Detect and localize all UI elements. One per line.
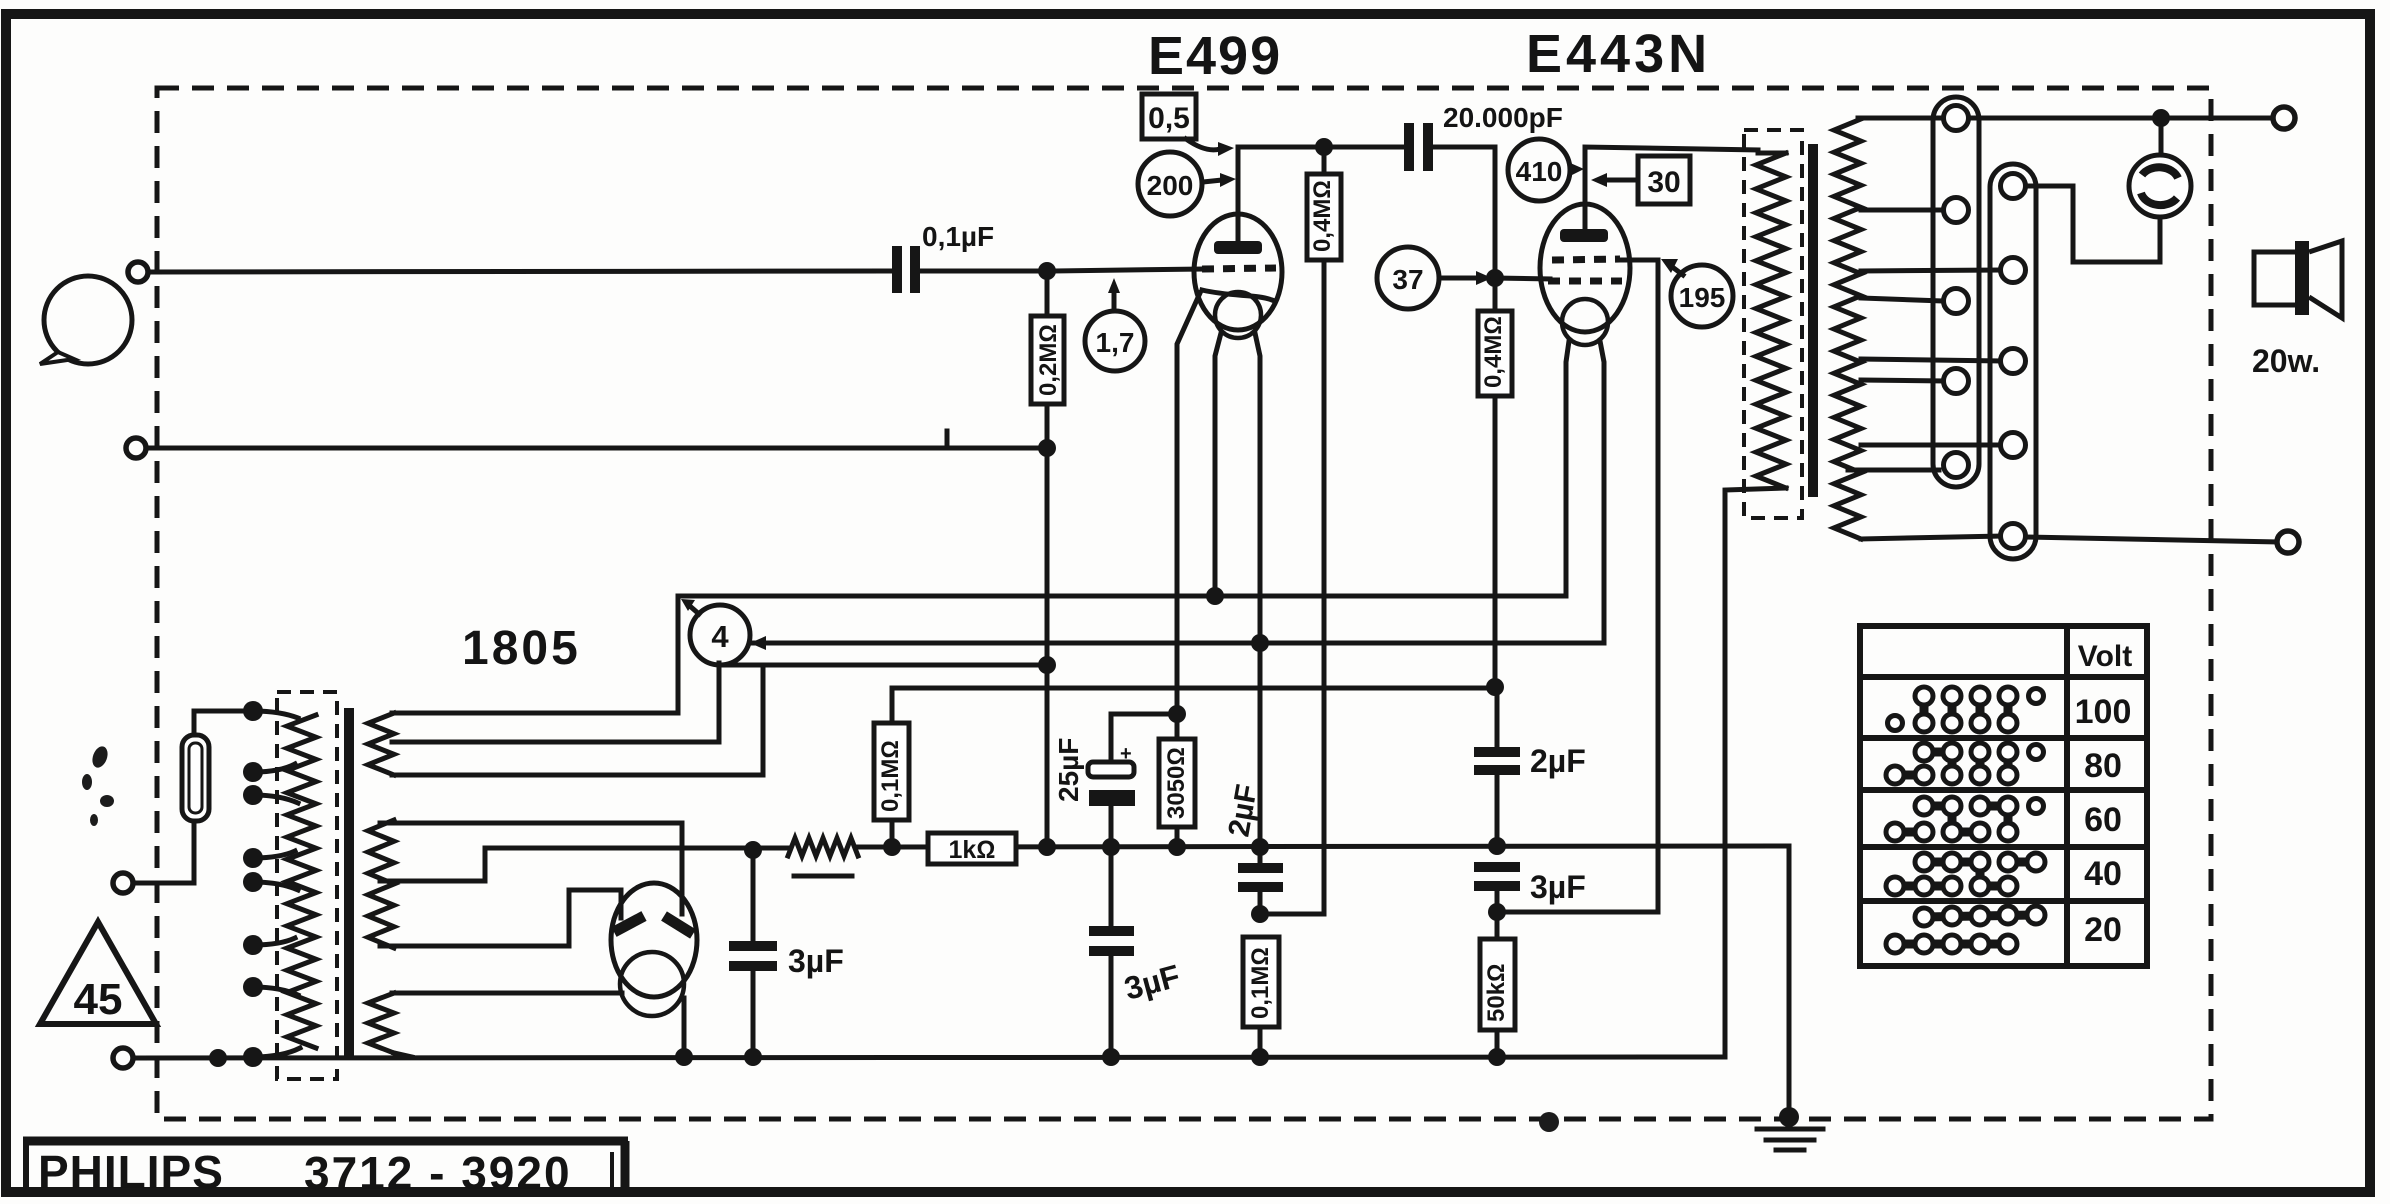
node lamp top dot [2152,109,2170,127]
wire input line 2 [147,446,1045,451]
wire lamp bottom step to bank2 hole1 [2026,186,2160,262]
capacitor 20000pF plates [1409,123,1428,171]
wire grid-return vertical down [1045,448,1050,847]
voltage row 40 links [1895,862,2036,886]
wire secondary tap to bank1 hole5 [1848,468,1939,473]
svg-text:20.000pF: 20.000pF [1443,102,1563,133]
circle meter 195 [1661,259,1733,327]
wire HT bottom tap to rectifier left anode [380,890,621,946]
node bus grid-return dot [1038,838,1056,856]
node bus 25uF dot [1102,838,1120,856]
tap switch bank 2 [1990,164,2036,559]
tube E443N base circle [1562,299,1608,345]
wire secondary tap to bank1 hole4 [1861,380,1944,381]
circle meter 1,7 [1085,278,1145,371]
capacitor 3uF right [1474,867,1520,912]
svg-text:100: 100 [2075,693,2132,731]
voltage selector table [1860,626,2147,966]
svg-text:0,4MΩ: 0,4MΩ [1309,180,1336,252]
print smudges [82,744,1559,1132]
transformer 1805 dashed box [277,692,337,1079]
node anode top dot [1315,138,1333,156]
tube E499 cathode arc [1202,290,1272,300]
hum resistor zigzag on bus [788,838,858,856]
node 2uF bottom dot [1251,905,1269,923]
svg-text:195: 195 [1679,282,1726,313]
wire ground riser [1787,846,1792,1117]
wire rectifier filament tap [392,991,622,996]
wire below 0.2M [1045,404,1050,448]
dashed chassis border [157,88,2211,1119]
node bus 3050 dot [1168,838,1186,856]
wire filament tap C [392,773,763,778]
svg-text:410: 410 [1516,156,1563,187]
arrowhead line 2 into circle 4 [750,636,766,650]
wire secondary tap to bank1 hole3 [1861,298,1944,301]
tube E499 base circle [1215,292,1261,338]
svg-text:40: 40 [2084,855,2122,893]
node 3uF-right bottom dot [1488,903,1506,921]
wire secondary tap to bank2 hole4 [1861,443,2001,448]
svg-text:1kΩ: 1kΩ [948,836,995,864]
wire fuse top to primary top tap [194,711,253,735]
svg-text:50kΩ: 50kΩ [1483,964,1510,1022]
wire 0.4M second down [1493,396,1498,687]
svg-text:E499: E499 [1148,26,1282,86]
svg-text:200: 200 [1147,170,1194,201]
node bottom bus 3uF dot [1102,1048,1120,1066]
tube E499 grid dashes [1202,268,1276,269]
output terminal top [2273,107,2295,129]
wire grid node down to input2 [1045,271,1050,316]
svg-text:0,1MΩ: 0,1MΩ [1247,947,1274,1019]
output transformer core [1808,144,1818,497]
svg-text:0,5: 0,5 [1148,102,1190,135]
svg-text:30: 30 [1647,166,1680,199]
wire circle4 down to tap B [717,663,722,742]
wire HT top tap to rectifier right anode [380,823,682,914]
voltage row 40 holes [1886,853,2045,895]
wire input line 1 [149,271,891,272]
svg-text:E443N: E443N [1526,24,1711,84]
voltage row 100 holes [1888,687,2044,732]
wire secondary tap to bank2 hole2 [1861,270,2001,271]
wire secondary tap to bank1 hole1 [1858,116,1943,121]
resistor 1k ohm box on bus [928,833,1016,864]
wire 3uF node to grid drop [1497,910,1658,915]
voltage row 100 links [1924,696,2008,723]
wire secondary tap to bank1 hole2 [1861,208,1944,213]
speaker symbol [2254,241,2342,318]
svg-text:+: + [1120,743,1132,765]
svg-text:60: 60 [2084,801,2122,839]
output transformer primary coil [1756,153,1786,488]
capacitor C 0.1uF plates [897,246,915,293]
secondary filament winding W1 [368,713,394,775]
wire E499 cathode lead down [1177,293,1200,714]
secondary rectifier filament winding W3 [368,993,394,1053]
wire W3 bottom to bus [394,1053,412,1057]
tube E499 anode bar [1214,241,1262,254]
transformer 1805 core [344,708,354,1058]
wire terminal1 to fuse [134,821,194,883]
tube E443N envelope [1540,204,1630,332]
svg-text:3050Ω: 3050Ω [1163,747,1190,819]
node bottom bus 50k dot [1488,1048,1506,1066]
wire filament tap A to line1 [392,711,678,716]
svg-text:PHILIPS: PHILIPS [38,1146,224,1198]
pilot lamp [2129,118,2191,217]
resistor 3050 ohm [1159,714,1195,847]
hum resistor slider underline [794,874,852,879]
node 3uF-left bottom dot [744,1048,762,1066]
capacitor 2uF right [1474,687,1520,846]
box tag 0,5 [1142,94,1234,156]
resistor 0.2M ohm [1031,316,1064,404]
box tag 30 [1591,156,1690,204]
node E443N grid dot [1486,269,1504,287]
wire primary top lead [1758,151,1786,156]
transformer 1805 primary coil [287,715,316,1048]
node leg on line 1 [1206,587,1224,605]
wire filament tap line 3 [719,663,1047,668]
wire primary bottom lead [1725,488,1786,1057]
node cathode 25uF dot [1168,705,1186,723]
wire anode top to coupling cap [1238,145,1404,150]
svg-text:20: 20 [2084,911,2122,949]
circle meter 200 [1138,152,1236,216]
voltage row 20 links [1895,915,2036,944]
triangle mark 45 [40,922,156,1024]
node grid junction dot [1038,262,1056,280]
voltage row 60 holes [1886,797,2044,841]
svg-text:2µF: 2µF [1530,743,1586,779]
wire screen feed line 4 [892,688,1495,723]
svg-text:0,1µF: 0,1µF [922,221,994,252]
title box PHILIPS [23,1141,628,1199]
resistor 50k ohm [1480,912,1515,1057]
node line3 junction dot [1038,656,1056,674]
node input2 junction dot [1038,439,1056,457]
wire filament tap B to circle 4 [392,740,719,745]
resistor 0.4M ohm first [1307,147,1341,260]
wire cap to E443N grid node [1433,147,1495,278]
primary tap dots [243,701,263,1067]
wire grid node to tube E499 grid [1055,269,1202,271]
svg-text:3712 - 3920: 3712 - 3920 [304,1147,572,1199]
svg-text:0,2MΩ: 0,2MΩ [1035,324,1062,396]
electrolytic 25uF [1088,714,1177,847]
mains terminal 1 [113,873,133,893]
svg-text:Volt: Volt [2078,640,2132,673]
bottom B+ bus [134,1057,1725,1058]
svg-text:3µF: 3µF [1530,869,1586,905]
wire 2uF node to 0.4M drop [1260,912,1324,917]
node leg on line 2 [1251,634,1269,652]
wire E499 left filament leg [1215,333,1221,596]
voltage row 80 links [1895,752,2008,775]
capacitor 2uF middle [1238,847,1283,914]
rectifier right anode bar [664,916,693,934]
wire E443N anode up and to output transformer [1585,147,1758,229]
output transformer secondary coil [1834,119,1861,539]
output transformer dashed box [1744,130,1802,518]
node line4 to 2uF dot [1486,678,1504,696]
node bus 3uF-left dot [744,841,762,859]
svg-text:3µF: 3µF [788,943,844,979]
node bus E499-leg dot [1251,838,1269,856]
ground symbol [1757,1107,1823,1150]
wire secondary tap to bank2 hole3 [1861,359,2001,361]
wire HT centre tap to bias bus [380,848,790,881]
tube E443N control grid dashes [1548,278,1622,285]
svg-text:25µF: 25µF [1053,738,1084,802]
primary tap stubs [253,711,300,1057]
tick mark on input line 2 [945,431,950,446]
svg-text:0,1MΩ: 0,1MΩ [877,740,904,812]
svg-text:37: 37 [1392,264,1423,295]
wire E499 right filament leg [1255,333,1260,847]
resistor 0.1M ohm left [874,723,909,847]
voltage row 20 holes [1886,906,2045,953]
wire 0.4M down long vertical [1322,260,1327,914]
voltage row 60 links [1895,806,2008,832]
node bus 2uF-right dot [1488,837,1506,855]
tap switch bank 1 [1933,97,1979,487]
input terminal 2 [126,438,146,458]
microphone symbol [40,276,132,364]
svg-text:1,7: 1,7 [1096,327,1135,358]
tube E443N screen grid dashes [1552,259,1620,260]
circle meter 4 [681,599,750,665]
bias bus line [858,846,1789,847]
capacitor 3uF left [729,850,777,1057]
wire E443N right filament leg [1600,341,1604,643]
rectifier left anode bar [614,916,644,932]
input terminal 1 [128,262,148,282]
wire filament line 1 [678,596,1566,713]
tube E443N anode bar [1560,229,1608,242]
fuse [182,735,209,821]
resistor 0.4M ohm second [1478,278,1512,396]
wire bank1 hole1 to output terminal [1969,116,2273,121]
svg-text:4: 4 [711,619,729,654]
wire E443N screen right lead down [1618,260,1658,912]
svg-text:45: 45 [74,975,123,1024]
node mains tap dots on bottom line [209,1049,227,1067]
resistor 0.1M ohm middle [1243,937,1279,1057]
tube E499 envelope [1194,214,1282,330]
circle meter 37 [1377,247,1492,309]
svg-text:20w.: 20w. [2252,343,2320,379]
wire rectifier cathode leg to B+ bus [682,998,687,1057]
wire E443N left filament leg [1566,341,1569,596]
node bottom bus 0.1M dot [1251,1048,1269,1066]
node rectifier leg dot [675,1048,693,1066]
secondary HT winding W2 [368,820,394,948]
capacitor 3uF middle [1089,847,1134,1057]
wire tap C riser [761,665,766,775]
output terminal bottom [2277,531,2299,553]
wire filament line 2 [753,641,1604,646]
rectifier tube base circle [620,952,684,1016]
wire E443N grid left lead [1495,278,1550,279]
svg-text:1805: 1805 [462,622,581,675]
wire E499 anode up [1236,147,1241,241]
svg-text:80: 80 [2084,747,2122,785]
wire secondary bottom to bank2 hole5 [1861,536,2001,539]
voltage row 80 holes [1886,743,2044,784]
circle meter 410 [1508,139,1584,201]
node bus 0.1M dot [883,838,901,856]
wire bank2 hole5 to output terminal bottom [2026,537,2277,542]
rectifier tube 1805 envelope [611,883,697,997]
svg-text:0,4MΩ: 0,4MΩ [1480,316,1507,388]
mains terminal 2 [113,1048,133,1068]
wire cap to grid node [920,269,1045,274]
